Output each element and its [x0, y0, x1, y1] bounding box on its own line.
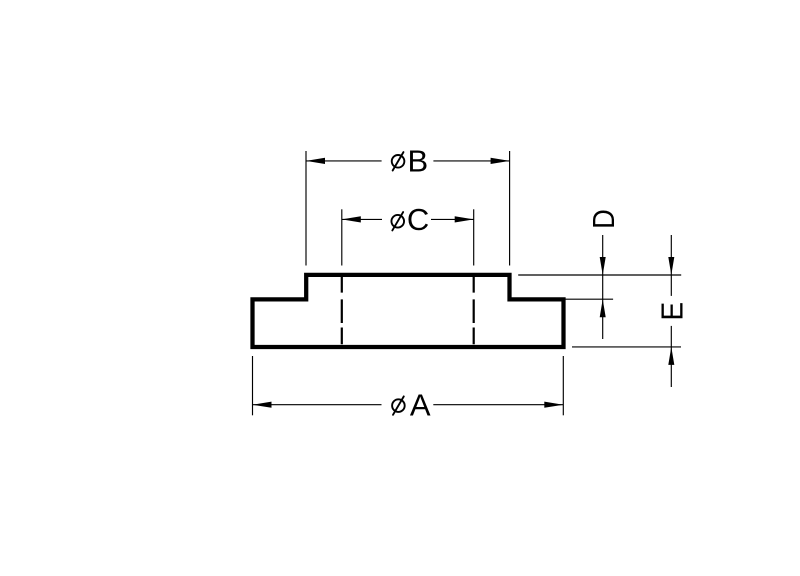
svg-text:E: E — [655, 302, 690, 321]
svg-text:C: C — [407, 202, 429, 237]
svg-text:D: D — [587, 209, 621, 229]
svg-text:A: A — [410, 387, 431, 422]
svg-text:B: B — [408, 143, 429, 178]
